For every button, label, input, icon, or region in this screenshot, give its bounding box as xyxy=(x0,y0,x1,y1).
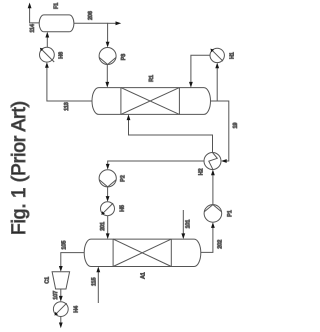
svg-text:107: 107 xyxy=(53,291,59,300)
heat exchanger H6 xyxy=(40,47,55,62)
vent wire right of 206 junction xyxy=(108,22,116,24)
arrow into H1 bottom xyxy=(215,63,219,69)
heat exchanger H1 xyxy=(210,48,224,62)
arrow into H6 bottom xyxy=(45,62,49,68)
stream 101 wire (feed to A1 top right) xyxy=(182,210,184,234)
pump P1 xyxy=(204,205,222,223)
wire junction to H1 bottom xyxy=(216,68,218,101)
svg-text:114: 114 xyxy=(30,24,36,32)
stream 114 arrow xyxy=(28,3,32,9)
stream 114 wire xyxy=(30,8,40,23)
compressor C1 xyxy=(52,272,70,289)
svg-text:202: 202 xyxy=(218,240,224,249)
svg-text:F1: F1 xyxy=(54,3,60,9)
stream 115 wire (feed to A1 bottom) xyxy=(97,272,99,303)
svg-text:206: 206 xyxy=(88,11,94,20)
stream 201 wire (H5 to A1 top left) xyxy=(107,216,109,234)
svg-text:P2: P2 xyxy=(120,175,126,182)
outlet arrow xyxy=(59,323,63,329)
vessel F1 xyxy=(39,15,74,32)
stream 105 wire (A1 left to C1) xyxy=(61,253,84,267)
arrow into A1 top left xyxy=(106,233,110,239)
heat exchanger H2 xyxy=(204,153,221,170)
arrow into H2 bottom xyxy=(211,170,215,176)
wire P2 to H5 xyxy=(107,187,109,197)
pump P2 xyxy=(99,170,116,187)
reactor R1 xyxy=(92,88,211,115)
svg-text:A1: A1 xyxy=(141,272,147,279)
svg-text:201: 201 xyxy=(100,222,106,231)
arrow into A1 bottom xyxy=(96,267,100,273)
stream 107 wire (C1 to H4) xyxy=(60,289,62,296)
arrow into C1 top xyxy=(59,266,63,272)
R1 catalyst bed X xyxy=(120,88,122,115)
vent arrow xyxy=(116,21,122,25)
reactor A1 xyxy=(84,239,201,266)
svg-text:115: 115 xyxy=(92,277,98,285)
stream 206 wire (F1 right to P3) xyxy=(74,23,108,42)
svg-text:Fig. 1 (Prior Art): Fig. 1 (Prior Art) xyxy=(9,101,30,235)
svg-text:R1: R1 xyxy=(149,75,155,82)
svg-text:19: 19 xyxy=(233,123,239,129)
stream 113 wire (R1 left to H6) xyxy=(47,67,92,101)
heat exchanger H5 xyxy=(101,202,115,216)
H6 diagonal arrow xyxy=(42,50,54,62)
svg-text:P3: P3 xyxy=(121,54,127,61)
stream 19 wire (R1 right to H2 right) xyxy=(211,101,229,161)
pump P3 xyxy=(99,48,116,65)
arrow into P3 top xyxy=(106,42,110,48)
svg-text:101: 101 xyxy=(185,220,191,229)
svg-text:113: 113 xyxy=(64,102,70,110)
svg-text:H2: H2 xyxy=(198,168,204,175)
svg-text:H5: H5 xyxy=(120,205,126,212)
H5 diagonal arrow xyxy=(103,203,113,213)
arrow into R1 top left xyxy=(105,82,109,88)
wire H2 top to R1 bottom xyxy=(129,120,213,153)
svg-text:105: 105 xyxy=(62,241,68,250)
arrow into H2 right xyxy=(221,159,227,163)
arrow into H4 top xyxy=(59,296,63,302)
outlet wire below H4 xyxy=(60,317,62,324)
svg-text:H1: H1 xyxy=(230,52,236,59)
arrow into R1 top right xyxy=(189,82,193,88)
svg-text:H6: H6 xyxy=(58,52,64,59)
H4 diagonal arrow xyxy=(56,303,67,314)
arrow into P1 bottom xyxy=(211,222,215,228)
stream 202 wire (A1 right to P1) xyxy=(201,227,213,252)
svg-text:P1: P1 xyxy=(227,210,233,217)
arrow into R1 bottom xyxy=(127,114,131,120)
arrow into F1 bottom xyxy=(45,32,49,38)
wire H1 to R1 top right xyxy=(191,55,210,82)
arrow into H5 top xyxy=(106,196,110,202)
wire P3 to R1 top xyxy=(106,65,108,83)
H1 diagonal arrow xyxy=(213,51,223,61)
H2 zigzag xyxy=(209,153,218,170)
wire H6 to F1 xyxy=(46,37,48,47)
wire P1 to H2 bottom xyxy=(212,175,214,205)
svg-text:C1: C1 xyxy=(45,277,51,284)
svg-text:H4: H4 xyxy=(73,306,79,313)
arrow into A1 top right xyxy=(181,233,185,239)
wire H2 left to P2 xyxy=(108,161,204,164)
arrow into P2 top xyxy=(106,164,110,170)
A1 catalyst bed X xyxy=(112,239,114,266)
heat exchanger H4 xyxy=(53,302,68,317)
